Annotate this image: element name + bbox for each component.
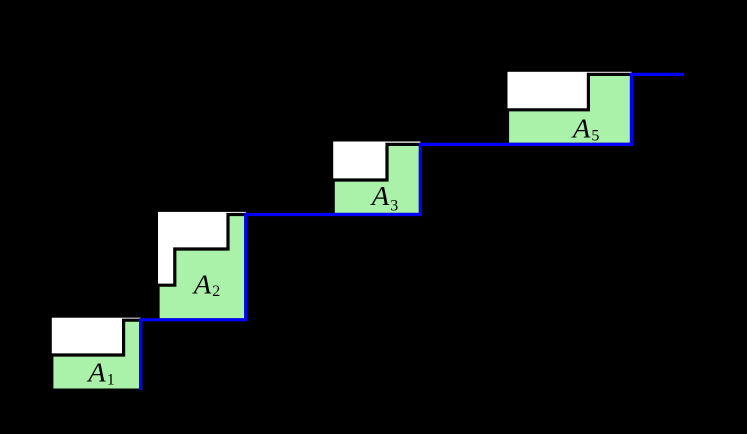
svg-text:3: 3 xyxy=(390,197,398,214)
svg-text:2: 2 xyxy=(212,283,220,300)
region A2 green area xyxy=(158,215,246,320)
svg-text:1: 1 xyxy=(107,372,115,389)
region A5 green area xyxy=(508,74,632,144)
svg-text:A: A xyxy=(370,181,390,211)
svg-text:A: A xyxy=(571,113,591,143)
svg-text:5: 5 xyxy=(591,128,599,145)
region A1 green area xyxy=(52,320,141,390)
region A1 white step rectangle xyxy=(52,318,141,355)
region A3 white step rectangle xyxy=(333,142,420,181)
region A2 white step rectangle xyxy=(158,212,246,285)
region A5 white step rectangle xyxy=(508,72,632,110)
svg-text:A: A xyxy=(86,357,106,387)
blue staircase curve xyxy=(141,74,684,390)
svg-text:A: A xyxy=(192,270,212,300)
region A3 green area xyxy=(333,144,420,214)
